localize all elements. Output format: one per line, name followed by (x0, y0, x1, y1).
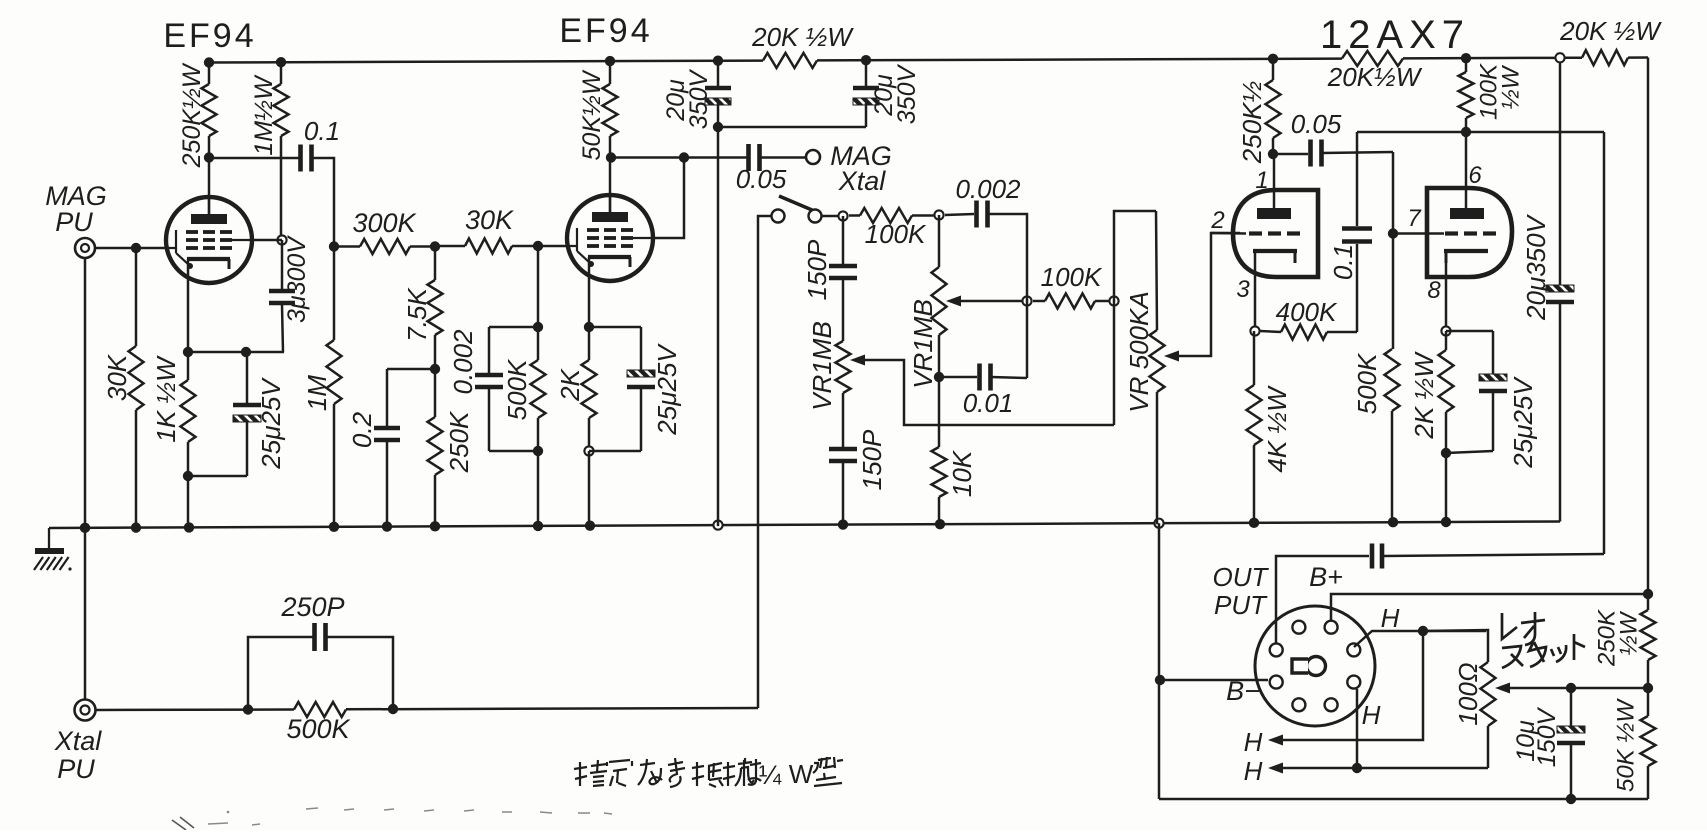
node junction plate feed (1461, 127, 1471, 137)
wiper arrow VR1MB middle (946, 296, 961, 307)
node junction 300K/30K/7.5K (430, 241, 440, 251)
wire 500K to ground (537, 451, 540, 527)
svg-text:EF94: EF94 (163, 17, 256, 55)
wire ground drop left of socket (1158, 523, 1161, 799)
node junction 100K/VR1MB (934, 210, 943, 219)
resistor 2K 1/2W (V3b cathode) (1445, 331, 1448, 350)
node heater junction lower (1352, 763, 1362, 773)
wire V2 grid branch down (537, 246, 540, 327)
svg-text:½W: ½W (1498, 64, 1525, 109)
capacitor 3uF 300V (screen bypass) (281, 240, 284, 289)
svg-text:0.002: 0.002 (955, 174, 1021, 204)
wire VR1MB2 wiper to 100K (961, 300, 1027, 303)
svg-text:0.1: 0.1 (304, 116, 340, 146)
capacitor 20uF 350V (second filter) (865, 60, 868, 86)
svg-text:H: H (1362, 700, 1381, 730)
svg-text:¼: ¼ (759, 760, 782, 790)
svg-text:0.002: 0.002 (448, 329, 478, 395)
resistor 100K (after switch) (860, 208, 912, 223)
wire V1 cathode lead (187, 259, 190, 352)
wire V3b grid leak riser (1392, 152, 1395, 349)
svg-text:3: 3 (1236, 276, 1250, 303)
wire screen node to tube (252, 239, 282, 242)
svg-text:30K: 30K (102, 353, 132, 401)
svg-text:OUT: OUT (1213, 562, 1270, 592)
node junction 0.1/300K/1M (329, 241, 339, 251)
triode2 grid dashes (1445, 231, 1458, 235)
svg-text:12AX7: 12AX7 (1320, 13, 1470, 57)
svg-text:B−: B− (1226, 676, 1260, 706)
node junction 7.5K/0.2/250K (430, 364, 440, 374)
wire V2 cathode network top (589, 326, 641, 329)
connector Xtal PU jack J2 (75, 700, 96, 721)
node ground rail junction dots (80, 523, 90, 533)
svg-text:W: W (789, 759, 814, 789)
resistor 500K (V2 grid leak) (537, 327, 540, 360)
svg-text:300K: 300K (352, 208, 416, 238)
node 2K bottom (584, 446, 593, 455)
triode1 grid dashes (1249, 231, 1262, 235)
node junction screen tie (679, 152, 689, 162)
svg-text:H: H (1381, 603, 1400, 633)
node V2 cathode junction (584, 322, 594, 332)
svg-text:0.05: 0.05 (736, 164, 787, 194)
potentiometer 100 ohm rheostat (1423, 630, 1488, 662)
capacitor 0.1 (feedback) (1356, 132, 1359, 226)
resistor 1M (V2 grid leak) (333, 246, 336, 340)
node junction at 30K tap (131, 243, 141, 253)
resistor 1K 1/2W (V1 cathode bias) (187, 352, 190, 380)
wire VR500KA wiper to V3 grid (1179, 233, 1240, 356)
wire heater lower to arrow (1282, 767, 1357, 770)
wire cathode network top (188, 351, 284, 354)
wire switch common to 100K (822, 215, 838, 218)
svg-text:4K ½W: 4K ½W (1262, 385, 1292, 473)
resistor 2K (V2 cathode) (588, 327, 591, 360)
svg-text:0.2: 0.2 (347, 411, 377, 448)
wire V2 plate node to MAG cap (610, 156, 748, 159)
node junction 10uF (1566, 683, 1576, 693)
capacitor 10uF 150V (1570, 688, 1573, 729)
svg-text:VR1MB: VR1MB (807, 321, 837, 411)
svg-text:1K ½W: 1K ½W (151, 355, 181, 443)
svg-text:350V: 350V (685, 68, 713, 129)
capacitor 20uF 350V (first filter) (717, 61, 720, 86)
resistor 100K 1/2W (V3b plate load) (1465, 58, 1468, 72)
ground symbol (48, 528, 50, 550)
svg-text:2: 2 (1210, 207, 1224, 234)
triode2 cathode lead (1445, 251, 1448, 331)
svg-text:1M: 1M (302, 375, 332, 411)
wire heater lower to rheostat (1357, 767, 1488, 770)
potentiometer VR 500KA (1156, 211, 1157, 330)
resistor 20K 1/2W (top middle, in B+ rail) (763, 53, 817, 68)
capacitor 0.05 (MAG feed) (746, 144, 751, 171)
resistor 250K (to ground) (434, 369, 437, 417)
connector MAG terminal (806, 150, 820, 164)
wire ground bus rail (49, 522, 1560, 528)
wire 2K to ground (1445, 453, 1448, 523)
node switch common junction (838, 211, 847, 220)
capacitor 0.002 (V2 grid) (489, 327, 538, 374)
socket keyhole (1307, 657, 1326, 676)
resistor 250K 1/2W (V1 plate load) (208, 63, 211, 85)
svg-text:6: 6 (1468, 162, 1482, 189)
label caption: unmarked resistors are 1/4W type (574, 760, 607, 786)
capacitor 150P (upper) (842, 216, 845, 265)
wire MAG PU jack to V1 grid (95, 247, 166, 250)
resistor 250K 1/2 (V3a plate load) (1272, 59, 1275, 80)
svg-text:20K ½W: 20K ½W (751, 22, 854, 52)
node B- junction (1155, 675, 1165, 685)
triode2 cathode (1444, 249, 1488, 253)
capacitor 25uF 25V (V2 cathode bypass) (640, 327, 643, 374)
wire rheostat wiper to divider (1510, 687, 1648, 690)
capacitor 150P (lower) (842, 393, 845, 448)
wiper arrow VR1MB left (850, 355, 865, 366)
resistor 50K 1/2W (bleeder lower) (1647, 688, 1650, 716)
svg-text:500K: 500K (1352, 352, 1382, 414)
switch arm (779, 196, 812, 210)
resistor 20K 1/2W (top right, in B+ rail) (1565, 56, 1582, 59)
svg-text:30K: 30K (465, 205, 514, 235)
svg-text:20K ½W: 20K ½W (1559, 16, 1662, 46)
triode2 plate lead pin 6 (1465, 132, 1468, 208)
node 500K top junction (533, 322, 543, 332)
wire B- pin to ground bus (1160, 679, 1268, 682)
wire plate feed drop (1603, 132, 1606, 554)
wire V2 cathode network bottom (589, 450, 641, 453)
capacitor 0.2 (386, 369, 389, 427)
wire shield bus MAG jack down to Xtal jack (84, 258, 87, 700)
resistor 10K (938, 377, 941, 447)
svg-text:10K: 10K (947, 449, 977, 497)
svg-text:PU: PU (55, 207, 93, 237)
node B+ junction (1643, 589, 1653, 599)
svg-text:250K½: 250K½ (1237, 81, 1267, 164)
capacitor 0.01 (bass) (939, 376, 977, 379)
capacitor 0.1 (V1-V2 coupling) (298, 145, 303, 172)
connector MAG PU jack J1 (75, 238, 95, 258)
node Xtal network junctions (243, 704, 253, 714)
svg-text:Xtal: Xtal (838, 166, 887, 196)
wire bottom return rail (1159, 798, 1648, 801)
wiper arrow VR500KA (1164, 351, 1179, 362)
node 2K bottom junction (1441, 448, 1451, 458)
svg-text:2K ½W: 2K ½W (1409, 351, 1439, 440)
resistor 7.5K (434, 246, 437, 280)
svg-text:1M½W: 1M½W (250, 74, 278, 156)
arrow heater lead lower (1268, 763, 1283, 774)
connector octal output socket (1255, 606, 1375, 726)
resistor 20K 1/2W (above 12AX7, in B+ rail) (1342, 51, 1403, 66)
tube 12AX7 second triode envelope (1427, 188, 1512, 277)
svg-text:0.05: 0.05 (1291, 109, 1342, 139)
triode1 plate lead pin 1 (1273, 154, 1276, 208)
wire filter caps common (718, 126, 866, 129)
wire top B+ rail right section (1403, 57, 1555, 60)
svg-text:250K½W: 250K½W (178, 62, 206, 168)
node junction 100K right (1109, 296, 1118, 305)
wire VR1MB wiper to bass line (865, 360, 1114, 425)
capacitor 0.002 (treble) (945, 214, 974, 215)
wire 0.1 top to plate feed (1357, 131, 1604, 134)
arrow heater lead upper (1268, 735, 1283, 746)
resistor 50K 1/2W (V2 plate load) (609, 61, 612, 84)
label rheostat katakana (1502, 613, 1517, 639)
svg-text:500K: 500K (286, 714, 350, 744)
node filter cap bottom junction (713, 122, 723, 132)
resistor 400K (feedback) (1327, 331, 1357, 334)
tube 12AX7 first triode envelope (1233, 190, 1318, 277)
wire B+ pin riser (1331, 594, 1648, 621)
resistor 4K 1/2W (V3a cathode) (1253, 331, 1256, 385)
triode1 grid lead pin 2 (1211, 232, 1246, 235)
wire 0.05 to MAG terminal (760, 156, 806, 159)
node junction VR1MB2 bottom (934, 372, 944, 382)
capacitor 0.05 (V3a-V3b coupling) (1273, 153, 1308, 156)
node V2 plate junction (606, 152, 616, 162)
tube EF94 V1 pentode (166, 197, 252, 283)
wire V2 plate lead (609, 157, 612, 212)
svg-text:1: 1 (1255, 167, 1268, 194)
node cathode resistor bottom (183, 471, 193, 481)
capacitor 25uF 25V (V1 cathode bypass) (246, 352, 249, 404)
wire V3b grid lead pin 7 (1393, 232, 1444, 235)
wire top B+ rail left section (209, 61, 763, 63)
node V1 plate junction (204, 152, 214, 162)
resistor 500K (V3b grid leak) (1385, 349, 1400, 411)
node cathode network junctions (183, 347, 193, 357)
triode1 cathode lead (1254, 251, 1257, 331)
node junction dots on B+ rail (204, 57, 214, 67)
wire 7.5K node to 0.2 cap (387, 368, 435, 371)
svg-text:7: 7 (1407, 205, 1422, 232)
node junction 400K/cathode (1250, 326, 1259, 335)
svg-text:PU: PU (57, 754, 95, 784)
svg-text:100K: 100K (865, 219, 927, 249)
svg-text:8: 8 (1427, 277, 1441, 304)
capacitor 250P (Xtal bypass) (248, 637, 314, 710)
svg-text:250P: 250P (280, 592, 344, 622)
svg-text:3μ300V: 3μ300V (283, 235, 311, 323)
resistor 30K (input load) (135, 248, 138, 346)
svg-text:VR 500KA: VR 500KA (1124, 291, 1154, 412)
svg-text:25μ25V: 25μ25V (256, 377, 286, 470)
stray scan marks bottom left (172, 817, 194, 830)
resistor 500K (Xtal series) (294, 702, 346, 717)
wire heater drop to H arrow (1282, 631, 1423, 740)
svg-text:25μ25V: 25μ25V (1508, 376, 1538, 469)
potentiometer VR1MB (left) (836, 341, 851, 393)
svg-text:500K: 500K (502, 358, 532, 420)
node V3b cathode junction (1441, 326, 1450, 335)
wiper arrow rheostat (1495, 683, 1510, 694)
resistor 250K 1/2W (bleeder upper) (1647, 594, 1650, 610)
svg-text:20μ350V: 20μ350V (1521, 213, 1551, 321)
tube EF94 V2 pentode (567, 195, 653, 281)
node V3b grid junction (1388, 228, 1398, 238)
svg-text:0.01: 0.01 (963, 388, 1014, 418)
svg-text:½W: ½W (1616, 610, 1643, 655)
wire coupling cap to grid resistor (312, 158, 334, 246)
node heater junction upper (1418, 626, 1428, 636)
svg-text:100Ω: 100Ω (1453, 662, 1483, 725)
wire cathode network bottom (188, 475, 247, 478)
socket pins (1325, 621, 1338, 634)
wire Xtal feed riser (758, 216, 771, 708)
triode2 plate (1450, 208, 1484, 219)
resistor 100K (tone mix) (1033, 300, 1045, 303)
wire VR1MB2 bottom (938, 335, 941, 377)
node V2 grid junction (533, 241, 543, 251)
node 500K bottom junction (533, 446, 543, 456)
wire heater pin H upper (1354, 631, 1486, 647)
svg-text:25μ25V: 25μ25V (652, 343, 682, 436)
node junction bottom rail (1566, 794, 1576, 804)
triode1 plate (1257, 208, 1291, 219)
wire output line to plate feed (1383, 554, 1604, 556)
wire filter ground drop (717, 127, 720, 526)
wire Xtal PU line (96, 708, 294, 711)
svg-text:7.5K: 7.5K (402, 287, 432, 342)
wire output pin riser (1276, 556, 1369, 644)
svg-text:B+: B+ (1309, 562, 1343, 592)
capacitor 25uF 25V (V3b cathode bypass) (1446, 330, 1493, 333)
potentiometer VR1MB (middle) (938, 215, 941, 267)
svg-text:150V: 150V (1533, 706, 1561, 767)
node junction wiper/cap branch (1022, 296, 1031, 305)
svg-text:150P: 150P (857, 429, 887, 490)
switch selector poles (772, 210, 785, 223)
wire 0.05 to V3b grid network (1322, 152, 1393, 153)
node open junction on B+ rail at 20uF/350V (1555, 53, 1564, 62)
svg-text:H: H (1244, 727, 1263, 757)
svg-text:PUT: PUT (1214, 590, 1268, 620)
svg-text:50K ½W: 50K ½W (1613, 698, 1640, 792)
svg-text:20K½W: 20K½W (1327, 62, 1423, 92)
wire heater pin H lower (1356, 689, 1359, 768)
node triode1 plate junction (1268, 149, 1278, 159)
svg-text:2K: 2K (555, 367, 585, 401)
svg-text:250K: 250K (444, 410, 474, 473)
svg-text:H: H (1244, 756, 1263, 786)
capacitor 20uF 350V (output filter) (1559, 62, 1562, 288)
wire V1 plate to coupling network (209, 157, 299, 160)
svg-text:50K½W: 50K½W (578, 69, 606, 160)
triode1 cathode (1253, 249, 1297, 253)
resistor 1M 1/2W (V1 screen feed) (280, 62, 283, 84)
svg-text:Xtal: Xtal (54, 726, 103, 756)
resistor 300K (decoupling) (360, 239, 410, 254)
resistor 30K (grid stopper V2) (465, 239, 512, 254)
wire V2 screen tie (653, 158, 684, 239)
capacitor output coupling (1370, 544, 1375, 569)
svg-text:400K: 400K (1276, 297, 1338, 327)
node bleeder junction (1643, 683, 1653, 693)
node ground rail open junctions (713, 521, 722, 530)
wire V1 plate lead (208, 157, 211, 215)
svg-text:EF94: EF94 (559, 12, 652, 50)
svg-text:350V: 350V (893, 63, 921, 124)
svg-text:0.1: 0.1 (1328, 244, 1358, 280)
svg-text:VR1MB: VR1MB (908, 299, 938, 389)
svg-text:150P: 150P (802, 239, 832, 300)
wire top B+ rail middle section (817, 59, 1342, 61)
node V1 screen junction (277, 235, 286, 244)
wire right edge B+ riser (1647, 58, 1650, 594)
wire tone node riser (1114, 211, 1156, 425)
wire V2 cathode lead (588, 257, 591, 327)
svg-text:100K: 100K (1041, 262, 1103, 292)
